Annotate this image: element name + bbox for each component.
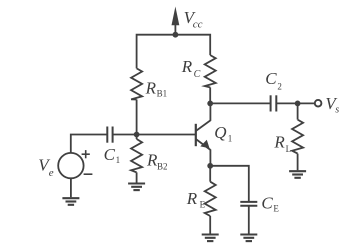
wire CE to ground xyxy=(248,206,250,234)
svg-text:B1: B1 xyxy=(157,89,168,99)
source Ve xyxy=(58,153,83,178)
wire base rail xyxy=(113,134,196,136)
label RC xyxy=(181,57,201,80)
ground under RL xyxy=(289,171,306,178)
svg-text:E: E xyxy=(273,204,279,214)
wire RB2 to ground xyxy=(136,135,138,140)
power Vcc arrow xyxy=(172,7,180,35)
ground under CE xyxy=(240,235,257,242)
node collector junction xyxy=(207,101,213,107)
label Vs xyxy=(325,94,339,115)
resistor RB1 xyxy=(131,68,142,99)
wire output node to RL xyxy=(297,103,299,119)
svg-text:C: C xyxy=(265,69,277,88)
node output junction xyxy=(295,101,301,107)
label Vcc xyxy=(184,8,203,31)
svg-text:R: R xyxy=(186,189,198,208)
svg-text:R: R xyxy=(181,57,193,76)
svg-text:C: C xyxy=(104,145,116,164)
resistor RE xyxy=(205,182,216,216)
capacitor C1 xyxy=(107,127,112,143)
label minus xyxy=(84,173,93,175)
wire top rail xyxy=(137,35,211,69)
ground under RE xyxy=(202,235,219,242)
capacitor CE xyxy=(240,202,257,206)
resistor RL xyxy=(292,120,303,154)
wire C2 to output node xyxy=(276,102,297,104)
ground under RB2 xyxy=(128,184,145,191)
wire Ve to C1 xyxy=(71,135,108,154)
svg-text:2: 2 xyxy=(277,81,282,91)
wire RB1 to base node xyxy=(136,100,138,135)
capacitor C2 xyxy=(271,95,277,111)
resistor RB2 xyxy=(131,139,142,172)
wire emitter to CE xyxy=(210,166,249,202)
node emitter junction xyxy=(207,163,213,169)
svg-text:s: s xyxy=(335,104,339,115)
svg-text:R: R xyxy=(145,78,157,97)
svg-text:e: e xyxy=(49,167,54,179)
svg-text:B2: B2 xyxy=(157,161,168,171)
svg-text:1: 1 xyxy=(228,133,233,143)
wire collector to C2 xyxy=(210,102,270,104)
ground under Ve xyxy=(62,198,79,205)
label CE xyxy=(261,193,279,213)
label Ve xyxy=(38,156,54,180)
label plus xyxy=(82,150,90,158)
label Q1 xyxy=(214,123,232,144)
svg-text:E: E xyxy=(200,200,206,210)
label RL xyxy=(273,133,291,154)
svg-text:R: R xyxy=(273,133,285,152)
wire output node to terminal xyxy=(298,102,315,104)
label C2 xyxy=(265,69,282,91)
label RB1 xyxy=(145,78,168,98)
wire Ve to ground xyxy=(70,178,72,197)
transistor Q1 xyxy=(196,103,211,165)
label RB2 xyxy=(146,151,168,172)
label C1 xyxy=(104,145,121,165)
svg-text:1: 1 xyxy=(116,155,121,165)
resistor RC xyxy=(205,55,216,87)
wire RL to ground xyxy=(297,154,299,171)
label RE xyxy=(186,189,206,210)
svg-text:L: L xyxy=(286,144,292,154)
svg-text:C: C xyxy=(194,69,201,80)
wire RC to collector node xyxy=(209,87,211,103)
svg-text:C: C xyxy=(261,193,273,212)
node base junction xyxy=(134,132,140,138)
node Vcc tap junction xyxy=(173,32,179,38)
wire RE to ground xyxy=(209,216,211,234)
terminal Vs xyxy=(315,100,322,107)
svg-text:Q: Q xyxy=(214,123,226,142)
wire emitter to RE xyxy=(209,166,211,182)
svg-text:cc: cc xyxy=(193,19,203,31)
